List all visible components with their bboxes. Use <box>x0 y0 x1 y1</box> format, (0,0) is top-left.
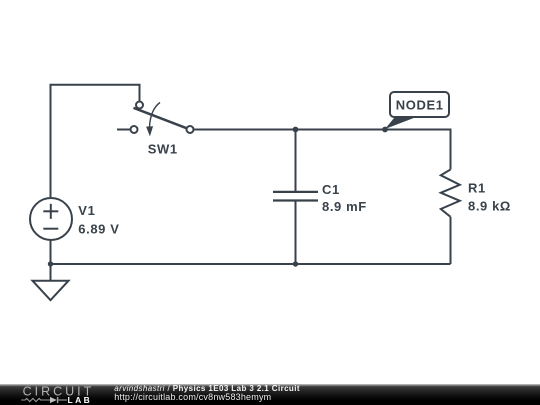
node NODE1 flag <box>385 92 449 129</box>
svg-text:SW1: SW1 <box>148 142 178 157</box>
footer title line <box>114 385 300 394</box>
wire from SW1 to R1 top corner <box>194 130 451 170</box>
footer bar <box>0 384 540 405</box>
wire C1 bottom lead <box>295 202 297 265</box>
wire R1 bottom lead <box>450 217 452 264</box>
svg-text:6.89 V: 6.89 V <box>78 221 119 236</box>
resistor R1 <box>441 170 511 217</box>
ground <box>33 281 69 301</box>
svg-text:V1: V1 <box>78 203 95 218</box>
junction dot at NODE1 <box>382 127 388 133</box>
wire bottom rail <box>51 263 451 265</box>
svg-text:R1: R1 <box>468 181 486 196</box>
svg-text:C1: C1 <box>322 182 340 197</box>
wire stub to SW1 common terminal <box>117 129 131 131</box>
svg-text:8.9 mF: 8.9 mF <box>322 199 367 214</box>
junction dot at C1 bottom <box>293 261 298 266</box>
voltage source V1 <box>30 198 119 240</box>
CircuitLab logo <box>0 384 100 405</box>
footer url line <box>114 393 271 402</box>
wire C1 top branch <box>295 130 297 192</box>
switch SW1 <box>131 102 194 157</box>
capacitor C1 <box>273 182 367 214</box>
junction dot at V1 bottom <box>48 261 53 266</box>
svg-text:LAB: LAB <box>68 395 93 405</box>
svg-text:NODE1: NODE1 <box>396 97 444 112</box>
wire from V1 top to SW1 top terminal <box>51 85 140 197</box>
junction dot at C1 top <box>293 127 299 133</box>
wire V1 bottom to ground <box>50 240 52 280</box>
svg-text:8.9 kΩ: 8.9 kΩ <box>468 199 511 214</box>
